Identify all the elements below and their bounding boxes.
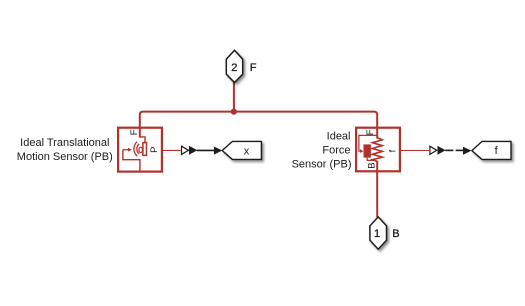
motion sensor icon: arrow xyxy=(123,148,132,152)
label Ideal Force Sensor (PB) xyxy=(292,131,352,171)
svg-text:P: P xyxy=(149,147,160,153)
arrowhead into f tag xyxy=(463,147,472,155)
motion sensor icon: L path to case xyxy=(123,150,140,172)
port label B xyxy=(392,228,399,240)
hollow converter arrow right xyxy=(430,146,437,154)
svg-text:f: f xyxy=(388,149,399,152)
motion sensor icon: sound arcs xyxy=(134,142,143,156)
signal line to f tag segment 2 xyxy=(456,149,464,151)
force sensor icon: bottom wire stub xyxy=(376,161,378,172)
PS signal line from motion sensor xyxy=(163,149,181,151)
motion sensor port label P (rotated) xyxy=(149,147,160,153)
svg-text:F: F xyxy=(365,129,376,135)
motion sensor icon: speaker rectangle xyxy=(143,143,147,156)
port label F xyxy=(250,62,257,74)
force sensor icon: spring xyxy=(372,138,382,162)
svg-text:x: x xyxy=(244,145,250,157)
force sensor icon: mass rectangle xyxy=(364,144,371,157)
block Ideal Force Sensor (PB) body xyxy=(356,128,400,172)
tag text f xyxy=(495,145,499,157)
motion sensor port label F (rotated) xyxy=(129,129,140,135)
wire from port F down to bus xyxy=(233,82,235,112)
label Ideal Translational Motion Sensor (PB) xyxy=(17,137,113,163)
svg-text:Sensor (PB): Sensor (PB) xyxy=(292,159,352,171)
force sensor port label F (rotated) xyxy=(365,129,376,135)
svg-text:F: F xyxy=(129,129,140,135)
wire from force sensor block down to port B xyxy=(376,172,378,218)
motion sensor icon: port stub and jog xyxy=(140,128,145,143)
filled converter arrow right xyxy=(438,146,446,155)
force sensor port label f (rotated) xyxy=(388,149,399,152)
force sensor icon: measuring loop with arrow xyxy=(359,135,377,153)
junction dot xyxy=(231,109,237,115)
svg-text:F: F xyxy=(250,62,257,74)
port 2 number xyxy=(231,62,237,74)
port 2 F hexagon xyxy=(226,50,242,82)
force sensor port label B (rotated) xyxy=(367,162,378,168)
svg-text:B: B xyxy=(367,162,378,168)
wire branch into force sensor block xyxy=(374,112,377,128)
block Ideal Translational Motion Sensor (PB) body xyxy=(118,128,162,172)
filled converter arrow left xyxy=(189,146,197,155)
wire horizontal bus xyxy=(143,111,374,113)
force sensor icon: mass-to-wire link xyxy=(367,158,375,161)
svg-text:Force: Force xyxy=(322,145,350,157)
svg-text:Motion Sensor (PB): Motion Sensor (PB) xyxy=(17,151,113,163)
svg-text:B: B xyxy=(392,228,399,240)
force sensor icon: top wire stub xyxy=(376,128,378,139)
svg-text:Ideal: Ideal xyxy=(327,131,351,143)
wire branch into motion sensor block xyxy=(140,112,143,128)
port 1 B hexagon xyxy=(370,217,387,249)
svg-text:Ideal Translational: Ideal Translational xyxy=(20,137,109,149)
PS signal line from force sensor xyxy=(401,150,429,152)
port 1 number xyxy=(374,228,380,240)
signal line to x tag xyxy=(197,149,215,151)
goto tag f xyxy=(472,141,511,159)
svg-text:1: 1 xyxy=(374,228,380,240)
tag text x xyxy=(244,145,250,157)
goto tag x xyxy=(222,141,261,159)
hollow converter arrow left xyxy=(182,146,189,154)
svg-text:2: 2 xyxy=(231,62,237,74)
arrowhead into x tag xyxy=(214,147,222,155)
signal line to f tag segment 1 xyxy=(445,149,453,151)
